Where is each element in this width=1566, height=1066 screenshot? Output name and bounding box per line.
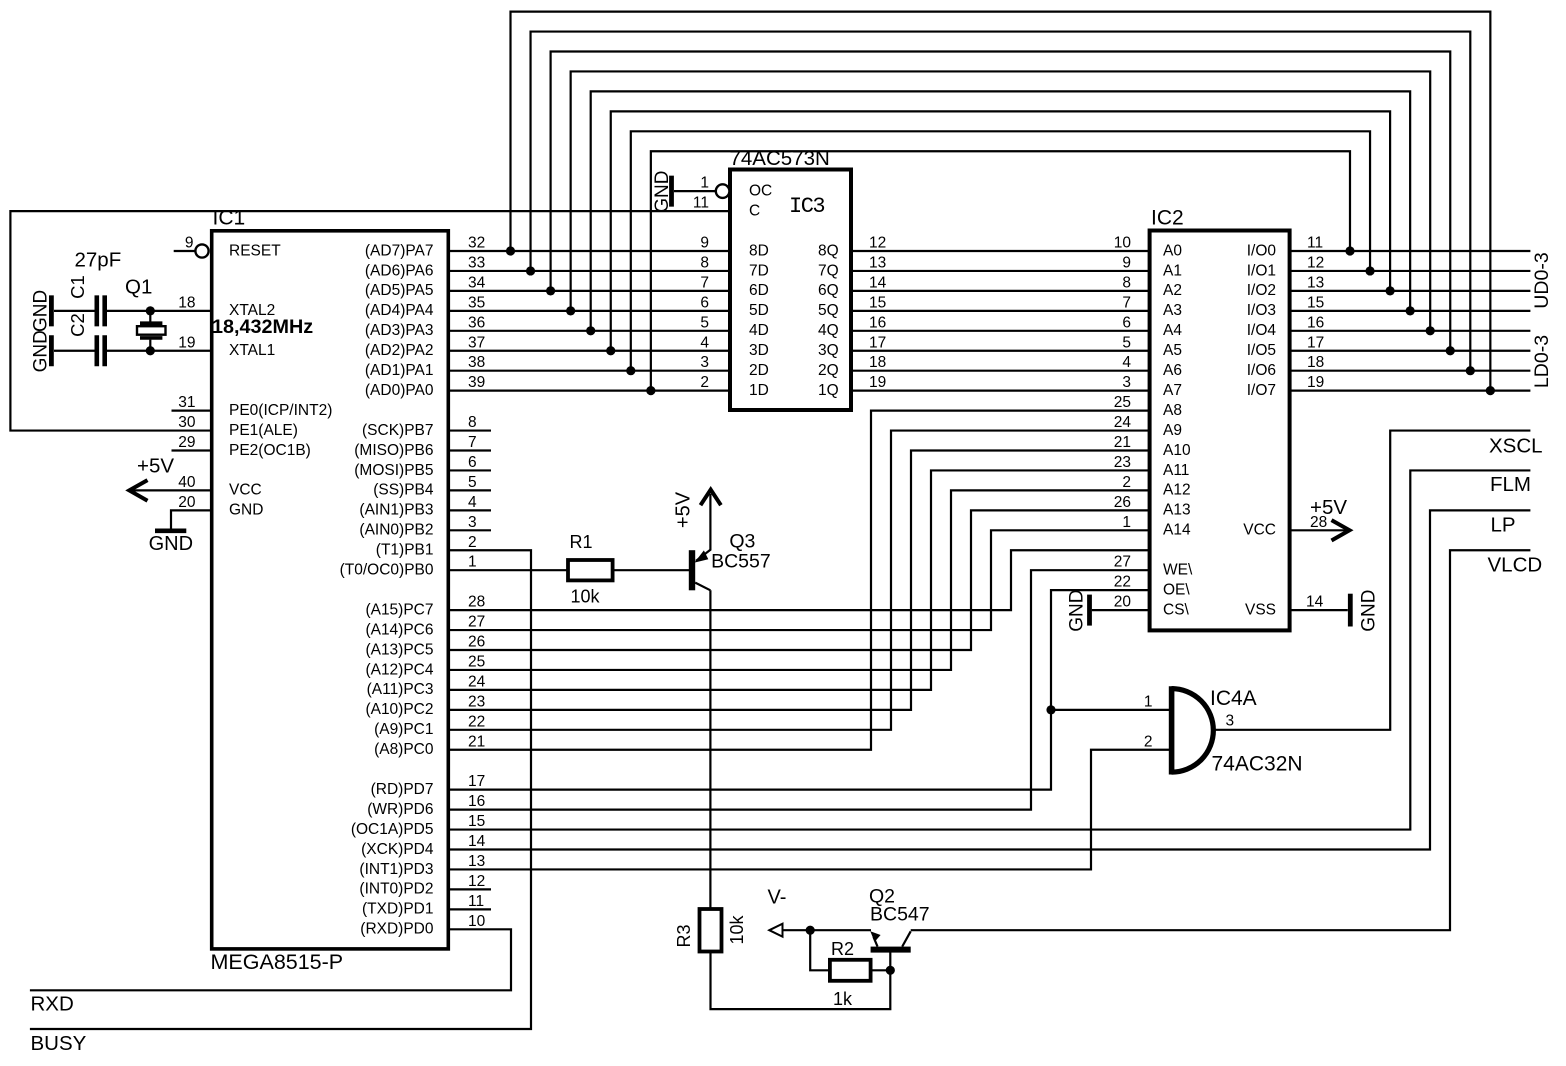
svg-text:(AD6)PA6: (AD6)PA6 — [365, 262, 434, 279]
svg-text:I/O1: I/O1 — [1247, 262, 1276, 279]
svg-text:2D: 2D — [749, 362, 769, 379]
svg-text:A13: A13 — [1163, 502, 1191, 519]
wire Q3 emitter to +5V — [709, 494, 711, 551]
svg-text:GND: GND — [229, 502, 263, 519]
wire junction down to R2 left — [810, 930, 830, 970]
svg-text:VLCD: VLCD — [1488, 554, 1543, 577]
svg-text:5: 5 — [468, 474, 477, 491]
svg-text:I/O6: I/O6 — [1247, 362, 1276, 379]
svg-text:36: 36 — [468, 314, 485, 331]
svg-text:(T0/OC0)PB0: (T0/OC0)PB0 — [340, 562, 434, 579]
capacitor C2 27pF plates — [95, 335, 100, 366]
svg-text:39: 39 — [468, 374, 485, 391]
wire IC2 I/O7 to LCD data bus edge — [1290, 390, 1531, 392]
wire A13 PC5 to IC2 — [448, 510, 1149, 650]
wire XTAL2 pin 18 to crystal/C1 — [107, 310, 212, 312]
svg-text:GND: GND — [1359, 589, 1380, 631]
svg-text:OE\: OE\ — [1163, 581, 1190, 598]
wire PE2 pin 29 stub — [172, 449, 212, 451]
wire C2 to ground bar — [54, 350, 95, 352]
wire AD7: PA7 row to IC3 8D — [448, 250, 730, 252]
+5V arrow head (IC2 VCC) — [1332, 520, 1350, 540]
svg-text:34: 34 — [468, 274, 486, 291]
wire IC2 I/O1 to LCD data bus edge — [1290, 270, 1531, 272]
wire Q2 emitter slant — [874, 937, 878, 947]
ground bar for IC2 VSS — [1348, 594, 1353, 627]
svg-text:2: 2 — [1144, 733, 1153, 750]
OR gate IC4A 74AC32N body — [1169, 686, 1175, 774]
svg-text:12: 12 — [1307, 254, 1324, 271]
svg-text:1D: 1D — [749, 382, 769, 399]
wire A14 PC6 to IC2 — [448, 530, 1149, 630]
svg-text:(A8)PC0: (A8)PC0 — [374, 741, 434, 758]
svg-text:12: 12 — [468, 873, 485, 890]
wire IC2 I/O5 to LCD data bus edge — [1290, 350, 1531, 352]
junction AD7 at left bus — [506, 246, 515, 255]
svg-text:(MISO)PB6: (MISO)PB6 — [354, 442, 433, 459]
wire IC2 I/O4 to LCD data bus edge — [1290, 330, 1531, 332]
wire AD2 bus loop over top — [611, 111, 1390, 350]
svg-text:25: 25 — [1114, 394, 1131, 411]
svg-text:(AD7)PA7: (AD7)PA7 — [365, 242, 434, 259]
svg-text:26: 26 — [1114, 494, 1131, 511]
svg-text:8: 8 — [700, 254, 709, 271]
svg-text:GND: GND — [149, 533, 193, 555]
wire IC4A input 1 — [1051, 709, 1171, 711]
svg-text:IC3: IC3 — [789, 194, 824, 219]
svg-text:I/O3: I/O3 — [1247, 302, 1276, 319]
svg-text:A2: A2 — [1163, 282, 1182, 299]
svg-text:74AC32N: 74AC32N — [1212, 753, 1303, 776]
wire RESET pin 9 stub — [174, 250, 196, 252]
svg-text:(AD0)PA0: (AD0)PA0 — [365, 382, 434, 399]
svg-text:19: 19 — [178, 334, 195, 351]
capacitor C1 27pF plates — [95, 295, 100, 326]
svg-text:+5V: +5V — [673, 491, 695, 528]
svg-text:6: 6 — [1122, 314, 1131, 331]
svg-text:PE1(ALE): PE1(ALE) — [229, 422, 298, 439]
wire XTAL1 pin 19 to crystal/C2 — [107, 350, 212, 352]
svg-text:17: 17 — [869, 334, 886, 351]
wire VCC pin 40 to +5V arrow — [129, 489, 211, 491]
svg-text:4: 4 — [700, 334, 709, 351]
svg-text:15: 15 — [468, 813, 485, 830]
svg-text:32: 32 — [468, 235, 485, 252]
wire A8 PC0 to IC2 — [448, 411, 1149, 750]
svg-text:23: 23 — [468, 693, 485, 710]
svg-text:(A9)PC1: (A9)PC1 — [374, 721, 433, 738]
svg-text:(TXD)PD1: (TXD)PD1 — [362, 901, 433, 918]
junction AD2 at left bus — [606, 346, 615, 355]
wire A10 PC2 to IC2 — [448, 451, 1149, 710]
svg-text:Q1: Q1 — [125, 276, 152, 299]
wire PD4(XCK) to LP — [448, 510, 1530, 849]
svg-text:OC: OC — [749, 182, 772, 199]
wire AD5 bus loop over top — [551, 52, 1451, 351]
svg-text:40: 40 — [178, 474, 196, 491]
wire IC3 8Q to IC2 A0 — [851, 250, 1150, 252]
wire IC2 I/O3 to LCD data bus edge — [1290, 310, 1531, 312]
wire IC3 3Q to IC2 A5 — [851, 350, 1150, 352]
svg-text:A1: A1 — [1163, 262, 1182, 279]
svg-text:13: 13 — [468, 853, 485, 870]
svg-text:7: 7 — [1122, 294, 1131, 311]
svg-text:3: 3 — [1226, 713, 1235, 730]
wire AD5: PA5 row to IC3 6D — [448, 290, 730, 292]
wire IC3 7Q to IC2 A1 — [851, 270, 1150, 272]
svg-text:I/O2: I/O2 — [1247, 282, 1276, 299]
svg-text:IC4A: IC4A — [1210, 687, 1257, 710]
wire Q3 collector slant — [695, 583, 710, 591]
svg-text:C2: C2 — [67, 313, 88, 337]
svg-text:9: 9 — [1122, 254, 1131, 271]
svg-text:(AD3)PA3: (AD3)PA3 — [365, 322, 434, 339]
svg-text:(RXD)PD0: (RXD)PD0 — [360, 921, 434, 938]
wire R1 to Q3 base — [613, 569, 689, 571]
svg-text:21: 21 — [1114, 434, 1131, 451]
+5V arrow head (IC1 VCC) — [129, 480, 147, 501]
svg-text:27pF: 27pF — [75, 249, 122, 272]
IC1 MEGA8515-P microcontroller body — [212, 231, 449, 949]
svg-text:Q3: Q3 — [729, 531, 755, 553]
svg-text:4: 4 — [1122, 354, 1131, 371]
svg-text:3: 3 — [1122, 374, 1131, 391]
wire PD5(OC1A) to FLM — [448, 470, 1530, 829]
svg-text:UD0-3: UD0-3 — [1531, 252, 1553, 308]
svg-text:A6: A6 — [1163, 362, 1182, 379]
svg-text:35: 35 — [468, 294, 485, 311]
wire PB1 pin 2 to BUSY — [30, 550, 531, 1029]
svg-text:(T1)PB1: (T1)PB1 — [376, 542, 434, 559]
svg-text:1: 1 — [1144, 693, 1153, 710]
svg-text:C1: C1 — [67, 275, 88, 299]
junction AD1 at I/O1 line — [1365, 266, 1374, 275]
svg-text:1: 1 — [468, 554, 477, 571]
junction crystal-XTAL1 — [146, 346, 155, 355]
svg-text:GND: GND — [652, 171, 673, 213]
junction V- wire to R2 — [806, 926, 815, 935]
svg-text:CS\: CS\ — [1163, 601, 1190, 618]
svg-text:25: 25 — [468, 653, 485, 670]
ground bar for IC3 OC pin — [669, 176, 674, 207]
svg-text:4: 4 — [468, 494, 477, 511]
junction AD5 at left bus — [546, 286, 555, 295]
svg-text:10: 10 — [1114, 235, 1132, 252]
junction AD0 at I/O0 line — [1345, 246, 1354, 255]
svg-text:(AD5)PA5: (AD5)PA5 — [365, 282, 434, 299]
svg-text:27: 27 — [1114, 554, 1131, 571]
IC3 74AC573N latch body — [730, 170, 851, 411]
wire A12 PC4 to IC2 — [448, 490, 1149, 670]
wire IC3 OC pin 1 to ground — [674, 190, 716, 192]
wire Q2 collector slant — [902, 931, 911, 946]
svg-text:7D: 7D — [749, 262, 769, 279]
svg-text:28: 28 — [1310, 514, 1327, 531]
svg-text:8Q: 8Q — [818, 242, 839, 259]
svg-text:5: 5 — [700, 314, 709, 331]
svg-text:(OC1A)PD5: (OC1A)PD5 — [351, 821, 434, 838]
svg-text:(AIN1)PB3: (AIN1)PB3 — [359, 502, 433, 519]
svg-text:17: 17 — [468, 773, 485, 790]
wire AD1 bus loop over top — [631, 131, 1370, 370]
svg-text:21: 21 — [468, 733, 485, 750]
wire IC2 I/O2 to LCD data bus edge — [1290, 290, 1531, 292]
svg-text:(A10)PC2: (A10)PC2 — [365, 701, 433, 718]
svg-text:BC547: BC547 — [870, 904, 930, 926]
svg-text:6: 6 — [700, 294, 709, 311]
resistor R1 body — [568, 560, 613, 580]
wire AD6 bus loop over top — [531, 32, 1471, 371]
svg-text:10k: 10k — [727, 914, 747, 944]
ground bar for IC1 GND pin 20 — [155, 528, 186, 533]
svg-text:2: 2 — [1122, 474, 1131, 491]
junction R2/Q2 base/loop — [886, 966, 895, 975]
transistor Q2 BC547 base bar — [871, 947, 911, 953]
wire IC3 4Q to IC2 A4 — [851, 330, 1150, 332]
svg-text:20: 20 — [178, 494, 196, 511]
svg-text:16: 16 — [1307, 314, 1324, 331]
svg-text:A3: A3 — [1163, 302, 1182, 319]
svg-text:A10: A10 — [1163, 442, 1191, 459]
wire PE0 pin 31 stub — [172, 410, 212, 412]
wire PB5 stub — [448, 469, 491, 471]
svg-text:10: 10 — [468, 913, 486, 930]
junction OE net to IC4A input 1 — [1046, 705, 1055, 714]
resistor R2 body — [830, 960, 871, 981]
junction AD6 at left bus — [526, 266, 535, 275]
svg-text:(MOSI)PB5: (MOSI)PB5 — [354, 462, 433, 479]
svg-text:I/O5: I/O5 — [1247, 342, 1276, 359]
svg-text:WE\: WE\ — [1163, 562, 1193, 579]
svg-text:19: 19 — [1307, 374, 1324, 391]
svg-text:XTAL1: XTAL1 — [229, 342, 275, 359]
wire A11 PC3 to IC2 — [448, 470, 1149, 689]
wire PB3 stub — [448, 509, 491, 511]
wire AD0 bus loop over top — [651, 151, 1350, 390]
svg-text:R2: R2 — [831, 939, 854, 959]
crystal Q1 body — [137, 326, 166, 335]
svg-text:(INT1)PD3: (INT1)PD3 — [359, 861, 433, 878]
wire IC2 CS to ground bar — [1092, 609, 1150, 611]
svg-text:5Q: 5Q — [818, 302, 839, 319]
svg-text:8: 8 — [1122, 274, 1131, 291]
svg-text:6: 6 — [468, 454, 477, 471]
svg-text:18,432MHz: 18,432MHz — [212, 316, 313, 338]
wire IC2 I/O6 to LCD data bus edge — [1290, 370, 1531, 372]
svg-text:2: 2 — [468, 534, 477, 551]
svg-text:VSS: VSS — [1245, 601, 1276, 618]
svg-text:18: 18 — [869, 354, 886, 371]
svg-text:15: 15 — [869, 294, 886, 311]
wire PB4 stub — [448, 489, 491, 491]
wire IC4A output pin 3 to XSCL — [1213, 431, 1530, 730]
svg-text:(SS)PB4: (SS)PB4 — [373, 482, 434, 499]
svg-text:(A11)PC3: (A11)PC3 — [367, 681, 434, 698]
svg-text:1: 1 — [700, 175, 709, 192]
svg-text:1Q: 1Q — [818, 382, 839, 399]
IC2 SRAM body — [1150, 231, 1290, 631]
junction AD5 at I/O5 line — [1446, 346, 1455, 355]
svg-text:2Q: 2Q — [818, 362, 839, 379]
svg-text:PE0(ICP/INT2): PE0(ICP/INT2) — [229, 402, 332, 419]
svg-text:12: 12 — [869, 235, 886, 252]
svg-text:38: 38 — [468, 354, 485, 371]
svg-text:IC2: IC2 — [1151, 207, 1184, 230]
wire AD3 bus loop over top — [591, 91, 1410, 330]
svg-text:7: 7 — [468, 434, 477, 451]
junction AD2 at I/O2 line — [1386, 286, 1395, 295]
svg-text:4D: 4D — [749, 322, 769, 339]
svg-text:19: 19 — [869, 374, 886, 391]
V- open arrow head — [769, 924, 782, 937]
svg-text:(A12)PC4: (A12)PC4 — [365, 661, 433, 678]
svg-text:18: 18 — [178, 294, 195, 311]
svg-text:11: 11 — [693, 195, 709, 212]
svg-text:5: 5 — [1122, 334, 1131, 351]
svg-text:MEGA8515-P: MEGA8515-P — [211, 950, 344, 974]
svg-text:BC557: BC557 — [711, 550, 771, 572]
wire PD2 stub — [448, 888, 491, 890]
wire PD3(INT1) to IC4A input 2 — [448, 750, 1171, 870]
IC3 OC pin inversion circle — [716, 184, 730, 198]
junction AD3 at left bus — [586, 326, 595, 335]
svg-text:16: 16 — [468, 793, 485, 810]
svg-text:14: 14 — [1306, 594, 1324, 611]
transistor Q3 BC557 base bar — [689, 550, 695, 590]
svg-text:(WR)PD6: (WR)PD6 — [367, 801, 433, 818]
svg-text:3Q: 3Q — [818, 342, 839, 359]
svg-text:RXD: RXD — [31, 993, 74, 1016]
svg-text:(AD1)PA1: (AD1)PA1 — [365, 362, 434, 379]
svg-text:A11: A11 — [1163, 462, 1189, 479]
wire Q2 collector to VLCD — [911, 550, 1531, 930]
wire PD0 pin 10 to RXD — [30, 929, 511, 990]
resistor R3 body — [700, 909, 722, 952]
svg-text:74AC573N: 74AC573N — [730, 147, 830, 170]
wire PB7 stub — [448, 429, 491, 431]
svg-text:GND: GND — [31, 290, 52, 332]
svg-text:22: 22 — [1114, 574, 1131, 591]
wire PD6(WR) to IC2 WE — [448, 570, 1149, 809]
junction AD4 at I/O4 line — [1426, 326, 1435, 335]
wire crystal top lead — [149, 311, 151, 322]
ground bar for IC2 CS — [1087, 595, 1092, 626]
svg-text:+5V: +5V — [137, 455, 174, 478]
svg-text:(AD2)PA2: (AD2)PA2 — [365, 342, 434, 359]
svg-text:9: 9 — [700, 235, 709, 252]
svg-text:6Q: 6Q — [818, 282, 839, 299]
svg-text:R3: R3 — [674, 924, 694, 947]
junction crystal-XTAL2 — [146, 306, 155, 315]
svg-text:(AD4)PA4: (AD4)PA4 — [365, 302, 434, 319]
svg-text:16: 16 — [869, 314, 886, 331]
svg-text:10k: 10k — [571, 587, 601, 607]
svg-text:8D: 8D — [749, 242, 769, 259]
RESET pin inversion circle — [195, 244, 208, 257]
svg-text:24: 24 — [1114, 414, 1132, 431]
wire C1 to ground bar — [54, 310, 95, 312]
svg-text:VCC: VCC — [229, 482, 262, 499]
wire IC3 1Q to IC2 A7 — [851, 390, 1150, 392]
Q2 emitter arrow head (NPN) — [870, 931, 880, 942]
svg-text:13: 13 — [869, 254, 886, 271]
junction AD6 at I/O6 line — [1466, 366, 1475, 375]
svg-text:7: 7 — [700, 274, 709, 291]
svg-text:(SCK)PB7: (SCK)PB7 — [362, 422, 434, 439]
+5V arrow head (Q3 emitter) — [701, 490, 721, 506]
svg-text:1k: 1k — [833, 989, 853, 1009]
wire IC3 2Q to IC2 A6 — [851, 370, 1150, 372]
svg-text:A0: A0 — [1163, 242, 1182, 259]
wire V- to Q2 emitter — [783, 929, 872, 931]
wire AD6: PA6 row to IC3 7D — [448, 270, 730, 272]
svg-text:A4: A4 — [1163, 322, 1182, 339]
wire IC2 VCC pin 28 to +5V arrow — [1290, 529, 1346, 531]
svg-text:XSCL: XSCL — [1489, 434, 1543, 457]
svg-text:8: 8 — [468, 414, 477, 431]
svg-text:FLM: FLM — [1490, 473, 1531, 496]
svg-text:13: 13 — [1307, 274, 1324, 291]
svg-text:LD0-3: LD0-3 — [1531, 335, 1553, 388]
junction AD1 at left bus — [626, 366, 635, 375]
svg-text:9: 9 — [185, 235, 194, 252]
svg-text:1: 1 — [1122, 514, 1131, 531]
svg-text:A8: A8 — [1163, 402, 1182, 419]
svg-text:RESET: RESET — [229, 242, 281, 259]
svg-text:(A13)PC5: (A13)PC5 — [365, 641, 433, 658]
svg-text:I/O4: I/O4 — [1247, 322, 1277, 339]
wire PB6 stub — [448, 449, 491, 451]
svg-text:3: 3 — [468, 514, 477, 531]
svg-text:5D: 5D — [749, 302, 769, 319]
svg-text:R1: R1 — [570, 532, 593, 552]
svg-text:20: 20 — [1114, 594, 1132, 611]
ground bar for C1 — [49, 295, 54, 326]
svg-text:23: 23 — [1114, 454, 1131, 471]
svg-text:37: 37 — [468, 334, 485, 351]
ground bar for C2 — [49, 335, 54, 366]
wire IC2 VSS pin 14 to ground — [1290, 609, 1348, 611]
wire IC3 5Q to IC2 A3 — [851, 310, 1150, 312]
wire IC3 6Q to IC2 A2 — [851, 290, 1150, 292]
svg-text:I/O7: I/O7 — [1247, 382, 1276, 399]
svg-text:4Q: 4Q — [818, 322, 839, 339]
svg-text:11: 11 — [1307, 235, 1323, 252]
svg-text:LP: LP — [1491, 514, 1516, 537]
svg-text:33: 33 — [468, 254, 485, 271]
svg-text:18: 18 — [1307, 354, 1324, 371]
junction AD4 at left bus — [566, 306, 575, 315]
wire PD7(RD) to IC2 OE — [448, 590, 1149, 790]
svg-text:24: 24 — [468, 673, 486, 690]
svg-text:A14: A14 — [1163, 522, 1191, 539]
svg-text:29: 29 — [178, 434, 195, 451]
svg-text:(INT0)PD2: (INT0)PD2 — [359, 881, 433, 898]
svg-text:17: 17 — [1307, 334, 1324, 351]
svg-text:6D: 6D — [749, 282, 769, 299]
svg-text:(AIN0)PB2: (AIN0)PB2 — [359, 522, 433, 539]
svg-text:A5: A5 — [1163, 342, 1182, 359]
svg-text:(A15)PC7: (A15)PC7 — [365, 601, 433, 618]
svg-text:A7: A7 — [1163, 382, 1182, 399]
svg-text:GND: GND — [1067, 589, 1088, 631]
svg-text:15: 15 — [1307, 294, 1324, 311]
wire Q3 collector down to R3 — [709, 590, 711, 909]
svg-text:PE2(OC1B): PE2(OC1B) — [229, 442, 311, 459]
svg-text:28: 28 — [468, 594, 485, 611]
wire AD7 bus loop over top — [511, 12, 1491, 391]
svg-text:A12: A12 — [1163, 482, 1191, 499]
